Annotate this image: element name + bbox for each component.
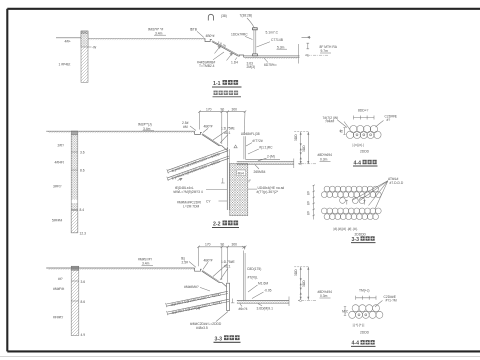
basement wall stub — [243, 251, 245, 301]
floor level dash-dot with arrow — [305, 54, 328, 56]
svg-text:3-3: 3-3 — [352, 237, 360, 243]
basement wall stub right — [243, 136, 245, 159]
svg-text:#M#F#t: #M#F#t — [53, 287, 64, 291]
svg-text:|.|+|.|+|.|: |.|+|.|+|.| — [353, 323, 365, 327]
svg-text:1 #P4Et: 1 #P4Et — [59, 62, 71, 66]
svg-text:5.1m7.C: 5.1m7.C — [266, 31, 279, 35]
svg-text:2DDD: 2DDD — [360, 149, 370, 153]
dim line with ticks — [354, 117, 375, 119]
dim line with ticks — [356, 297, 376, 299]
svg-text:M(C: M(C — [342, 310, 349, 314]
pile circles row 1 — [350, 126, 357, 133]
anchor plate mark — [221, 178, 225, 183]
basement floor line — [245, 158, 280, 160]
svg-text:-0.05: -0.05 — [264, 288, 272, 292]
svg-text:UD48#FL(38: UD48#FL(38 — [241, 132, 260, 136]
left ticks/labels — [313, 185, 315, 216]
row 4 — [324, 214, 330, 220]
pile side depth mark — [88, 46, 92, 48]
tick X at wall top — [243, 246, 246, 249]
svg-text:#M: #M — [183, 125, 188, 129]
svg-text:1DDx7#RC: 1DDx7#RC — [231, 33, 248, 37]
borehole column 2 — [71, 135, 78, 233]
soil nail arrow 2 — [227, 53, 233, 61]
pit floor level dash-dot — [298, 163, 316, 165]
basement wall (double vertical) — [253, 30, 255, 56]
svg-text:1.D4: 1.D4 — [231, 61, 238, 65]
floor end extension — [293, 159, 295, 169]
step bench at slope crest — [205, 38, 212, 41]
svg-text:4-4: 4-4 — [352, 341, 360, 347]
svg-text:2DDD: 2DDD — [360, 331, 370, 335]
svg-text:90: 90 — [221, 243, 225, 247]
pile top crosshatch cap — [81, 31, 88, 47]
svg-text:6D75%=: 6D75%= — [264, 63, 277, 67]
circles row 1 — [352, 305, 359, 312]
svg-text:2-(M): 2-(M) — [267, 155, 275, 159]
svg-text:3.6: 3.6 — [80, 150, 85, 154]
row 2 — [321, 192, 327, 198]
svg-text:3.6: 3.6 — [81, 280, 86, 284]
svg-text:#M##M#?: #M##M#? — [184, 285, 199, 289]
svg-text:3.4m: 3.4m — [142, 262, 150, 266]
svg-text:4-4: 4-4 — [354, 160, 362, 166]
svg-text:BH1: BH1 — [81, 31, 88, 35]
svg-text:3DD: 3DD — [294, 134, 298, 141]
svg-text:8#: 8# — [307, 191, 311, 195]
svg-text:L=2M 7DM: L=2M 7DM — [183, 204, 199, 208]
label box inside footing — [237, 170, 246, 176]
soil nail band 2 — [168, 156, 229, 178]
svg-text:3DD: 3DD — [302, 280, 306, 287]
step bench — [195, 131, 202, 134]
svg-text:#6x?4: #6x?4 — [239, 307, 248, 311]
svg-text:4.9: 4.9 — [81, 333, 86, 337]
right depth dimension (twin lines) — [300, 267, 302, 300]
nail angle mark — [178, 178, 183, 180]
pile circles row 2 — [346, 131, 353, 138]
svg-text:|#|.|#|.|#| .|#| .|#|.: |#|.|#|.|#| .|#| .|#|. — [334, 227, 358, 231]
ground line — [46, 267, 194, 269]
nail angle mark — [196, 307, 201, 309]
mid arrows — [346, 200, 348, 204]
svg-text:2.5#: 2.5# — [182, 260, 189, 264]
note leader — [213, 52, 224, 60]
layer boundaries — [71, 280, 79, 282]
svg-text:#48x3.5: #48x3.5 — [196, 326, 208, 330]
svg-text:C7714B: C7714B — [271, 38, 284, 42]
ground line — [46, 130, 194, 132]
svg-text:#(1:1)RC: #(1:1)RC — [259, 145, 273, 149]
rebar dots — [356, 134, 358, 136]
row 1 — [321, 186, 381, 219]
svg-text:1-1: 1-1 — [213, 81, 221, 87]
top dimension line — [199, 246, 246, 248]
svg-text:|.|x|.|x|.|: |.|x|.|x|.| — [353, 143, 364, 147]
svg-text:2#t?: 2#t? — [58, 144, 65, 148]
pit floor hatched slab — [237, 300, 289, 302]
slope face (double line) — [212, 42, 239, 57]
svg-text:5#F#t4: 5#F#t4 — [52, 219, 62, 223]
small level tick top — [302, 36, 311, 38]
step bench — [195, 268, 202, 271]
svg-text:8#: 8# — [307, 211, 311, 215]
toe bench — [238, 55, 243, 57]
svg-text:T=TMB2.4: T=TMB2.4 — [199, 64, 215, 68]
svg-text:#?: #? — [387, 118, 391, 122]
slope face lower — [222, 146, 227, 151]
svg-text:300: 300 — [232, 108, 238, 112]
svg-text:8DD+?: 8DD+? — [358, 109, 369, 113]
pit floor hatched slab — [237, 160, 294, 162]
svg-text:90: 90 — [221, 108, 225, 112]
rebar dots — [358, 314, 360, 316]
svg-text:#8D%494: #8D%494 — [318, 290, 333, 294]
svg-text:300: 300 — [232, 243, 238, 247]
svg-text:3.4m: 3.4m — [143, 127, 151, 131]
nail 2 head tick — [167, 177, 169, 181]
mid bench — [219, 145, 222, 147]
svg-text:3.4m: 3.4m — [155, 31, 163, 35]
mini dim bracket — [307, 43, 310, 49]
svg-text:CY: CY — [206, 200, 211, 204]
footing hatch block — [230, 163, 248, 215]
slope face upper — [202, 134, 219, 145]
svg-text:#?1-?M: #?1-?M — [386, 298, 397, 302]
svg-text:#7.D-D.D: #7.D-D.D — [390, 181, 404, 185]
soil nail band 1 — [168, 149, 228, 171]
borehole column 3 — [71, 270, 79, 335]
svg-text:3-3: 3-3 — [215, 336, 223, 342]
svg-text:170: 170 — [206, 108, 212, 112]
soil nail band 1 — [167, 291, 228, 304]
svg-text:#!T?2#: #!T?2# — [252, 139, 262, 143]
svg-text:#F##t?: #F##t? — [53, 315, 63, 319]
svg-text:3DD: 3DD — [302, 145, 306, 152]
floor level dash-dot — [298, 299, 316, 301]
svg-text:t#WL=?M(9)2M?3 4: t#WL=?M(9)2M?3 4 — [174, 190, 203, 194]
svg-text:5.3m: 5.3m — [277, 45, 285, 49]
subtitle — [214, 91, 218, 95]
soil nail band 2 — [168, 299, 229, 312]
fan leaders — [352, 181, 388, 209]
svg-text:7(38:2B): 7(38:2B) — [240, 14, 253, 18]
wall base pad — [253, 54, 258, 56]
svg-text:4#t4Ft: 4#t4Ft — [55, 161, 64, 165]
right depth dimension (twin lines) — [300, 132, 302, 164]
slope face upper — [202, 271, 219, 282]
svg-text:0.3m: 0.3m — [320, 158, 328, 162]
svg-text:9.7m: 9.7m — [321, 49, 329, 53]
lowest layer diagonal hatch — [71, 211, 78, 233]
svg-text:3.6D(M)9.1: 3.6D(M)9.1 — [257, 306, 274, 310]
svg-text:#t?: #t? — [58, 277, 63, 281]
svg-text:8.6: 8.6 — [81, 300, 86, 304]
svg-text:8#: 8# — [307, 201, 311, 205]
svg-text:#1:1: #1:1 — [224, 131, 231, 135]
svg-text:4B0*#: 4B0*# — [204, 125, 213, 129]
svg-text:2-2: 2-2 — [213, 222, 221, 228]
svg-text:t$TB: t$TB — [190, 28, 198, 32]
ground line left of pile — [56, 37, 81, 39]
svg-text:4#i+: 4#i+ — [65, 39, 71, 43]
svg-text:4B0*#: 4B0*# — [206, 34, 215, 38]
borehole header dark — [71, 266, 79, 270]
svg-text:#T(R)L: #T(R)L — [248, 276, 258, 280]
row 3 — [321, 208, 327, 214]
svg-text:170: 170 — [205, 243, 211, 247]
hook symbol a — [208, 14, 213, 20]
circles row 2 — [349, 311, 356, 318]
leaders from slope labels — [213, 130, 227, 140]
nail 1 head tick — [167, 169, 169, 173]
leaders — [213, 264, 227, 277]
svg-text:3#Ft?: 3#Ft? — [53, 185, 62, 189]
svg-text:8.6: 8.6 — [80, 168, 85, 172]
top dimension line — [199, 111, 245, 113]
layer boundaries — [71, 151, 78, 153]
svg-text:TM(+c): TM(+c) — [359, 289, 370, 293]
svg-text:265M54: 265M54 — [254, 170, 266, 174]
svg-text:(38): (38) — [221, 14, 227, 18]
svg-text:0.3m: 0.3m — [320, 294, 328, 298]
svg-text:3DD: 3DD — [294, 269, 298, 276]
soil nail arrow 1 — [215, 46, 221, 54]
svg-text:8.4: 8.4 — [80, 208, 85, 212]
svg-text:#8D%694: #8D%694 — [318, 153, 333, 157]
soldier pile rectangle — [227, 283, 230, 310]
middle sparse circles — [340, 198, 346, 204]
support pile column (hatched) — [81, 31, 88, 82]
svg-text:4B0*#: 4B0*# — [204, 258, 213, 262]
wall top cap — [253, 28, 258, 30]
svg-text:C8D(175): C8D(175) — [247, 267, 261, 271]
svg-text:2M(3): 2M(3) — [247, 65, 256, 69]
svg-text:#1:1: #1:1 — [224, 264, 231, 268]
mid bench — [219, 282, 222, 284]
svg-text:Mx4: Mx4 — [238, 171, 244, 175]
floor end extension — [288, 297, 290, 307]
pit floor double line — [244, 56, 300, 58]
anchor plate mark — [231, 299, 234, 303]
end-of-floor extension line — [297, 44, 299, 64]
svg-text:12.3: 12.3 — [80, 232, 87, 236]
svg-text:#(T?(p)-36?(2*: #(T?(p)-36?(2* — [257, 190, 279, 194]
svg-text:?#4##: ?#4## — [325, 120, 334, 124]
retaining wall (double vertical) — [226, 147, 228, 211]
svg-text:M1:6M: M1:6M — [258, 281, 268, 285]
ground surface hatch strip right of pile — [88, 37, 205, 39]
slope face lower — [222, 283, 227, 288]
svg-text:2DDDD: 2DDDD — [355, 232, 367, 236]
borehole header — [71, 131, 78, 135]
